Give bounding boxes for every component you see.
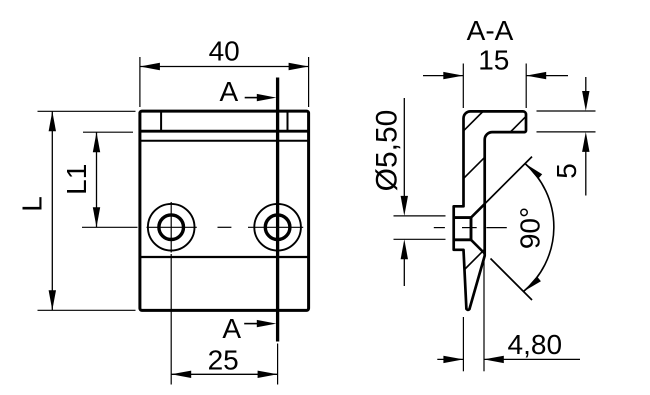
svg-text:15: 15 (478, 44, 509, 75)
hatch line H2b (511, 116, 526, 131)
dimension 15 (423, 44, 568, 108)
section hole centerline (dash-dot) (434, 227, 507, 229)
dimension 25 (171, 254, 277, 385)
section outline (454, 111, 526, 309)
dimension 40 (140, 36, 309, 107)
front view: top band bottom edge (140, 130, 309, 133)
label 90deg (515, 207, 546, 249)
hatch line H3 (465, 250, 485, 270)
holes horizontal centerline (dash-dot) (147, 226, 304, 228)
svg-text:A-A: A-A (467, 15, 514, 46)
svg-text:L1: L1 (61, 164, 92, 195)
hole left vertical centerline (170, 202, 172, 253)
label A top with arrow (220, 76, 277, 107)
svg-text:25: 25 (208, 344, 239, 375)
dimension diameter 5,50 (371, 98, 446, 286)
dimension 5 (537, 77, 596, 196)
hole left outer circle (148, 204, 195, 251)
bore of countersunk hole (454, 218, 471, 240)
svg-text:A: A (222, 313, 241, 344)
svg-text:4,80: 4,80 (508, 329, 563, 360)
hatch line H2a (464, 157, 485, 178)
hole left inner circle (159, 215, 184, 240)
front view: band divider left (160, 112, 162, 132)
dimension L (16, 111, 135, 310)
hatch line H1 (464, 111, 484, 131)
svg-text:Ø5,50: Ø5,50 (371, 110, 404, 192)
hole right outer circle (254, 204, 301, 251)
countersink lower face + 90deg leg (471, 240, 532, 300)
svg-text:A: A (220, 76, 239, 107)
countersink upper face + 90deg leg (471, 157, 532, 218)
dimension 90deg arc (524, 164, 554, 292)
front view: band divider right (287, 112, 289, 132)
dimension 4,80 (437, 258, 580, 372)
section cutting plane line A-A (276, 78, 279, 342)
front view: part outline (140, 111, 309, 310)
svg-text:L: L (16, 196, 47, 212)
front view: fillet tangent line (140, 140, 309, 142)
svg-text:40: 40 (209, 36, 240, 67)
section title A-A (467, 15, 514, 46)
hole right inner circle (265, 215, 290, 240)
label A bottom with arrow (222, 313, 276, 344)
svg-text:5: 5 (551, 163, 582, 179)
dimension L1 (61, 132, 138, 227)
front view: taper start edge (140, 256, 309, 258)
svg-text:90°: 90° (515, 207, 546, 249)
